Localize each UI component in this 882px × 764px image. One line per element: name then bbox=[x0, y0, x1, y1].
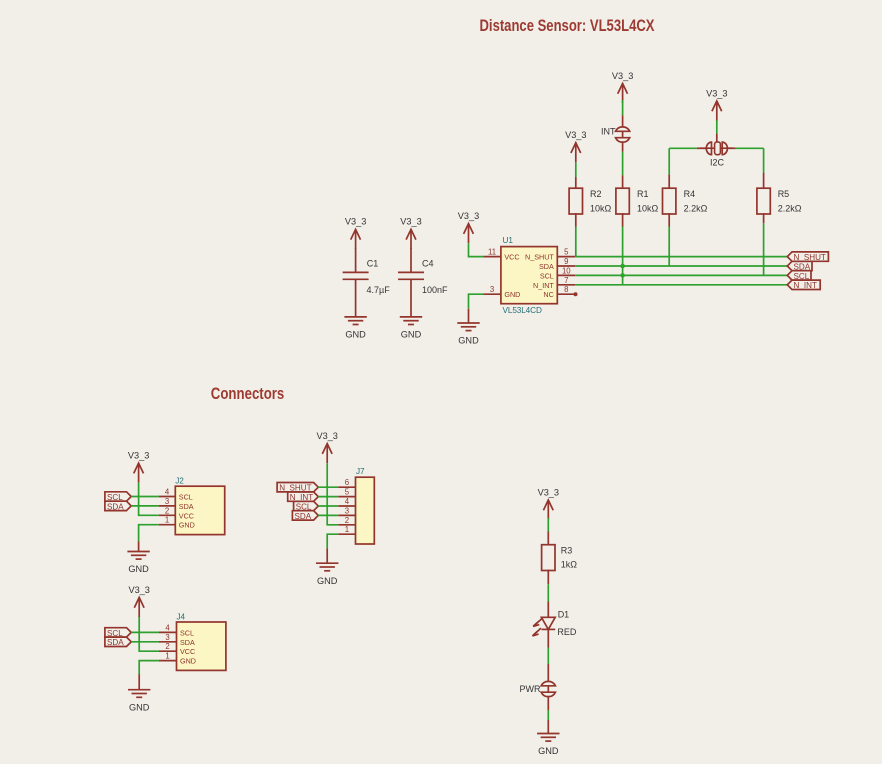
svg-text:GND: GND bbox=[538, 746, 559, 756]
J4 pin 1 GND bbox=[159, 652, 196, 666]
junction SCL bbox=[620, 273, 625, 278]
svg-text:3: 3 bbox=[165, 497, 169, 506]
power V3_3 above J7 bbox=[316, 431, 337, 463]
svg-text:10kΩ: 10kΩ bbox=[637, 203, 659, 213]
svg-text:C1: C1 bbox=[367, 258, 379, 268]
J4 pin 3 SDA bbox=[159, 633, 195, 647]
wire J2 pin 1 to ground bbox=[139, 525, 159, 542]
svg-text:R4: R4 bbox=[684, 189, 696, 199]
svg-text:N_INT: N_INT bbox=[533, 281, 554, 290]
svg-text:V3_3: V3_3 bbox=[128, 451, 149, 461]
wire down to R5 bbox=[763, 148, 765, 188]
svg-text:D1: D1 bbox=[558, 609, 570, 619]
svg-text:V3_3: V3_3 bbox=[565, 130, 586, 140]
J7 pin 1 bbox=[338, 525, 355, 534]
svg-text:V3_3: V3_3 bbox=[400, 217, 421, 227]
svg-text:N_INT: N_INT bbox=[794, 281, 817, 290]
wire INT to R1 bbox=[622, 143, 624, 189]
resistor R2 bbox=[569, 188, 611, 214]
svg-text:J7: J7 bbox=[356, 467, 365, 476]
connector J2 body bbox=[175, 477, 224, 535]
LED D1 bbox=[533, 609, 577, 637]
J2 pin 3 SDA bbox=[159, 497, 194, 511]
ground below PWR bbox=[537, 734, 559, 757]
wire V3_3 to jumper bbox=[716, 120, 718, 142]
resistor R4 bbox=[663, 188, 708, 214]
global label N_SHUT right bbox=[787, 252, 828, 262]
svg-text:R5: R5 bbox=[778, 189, 790, 199]
svg-text:100nF: 100nF bbox=[422, 285, 448, 295]
ground below J2 bbox=[127, 541, 149, 574]
power V3_3 above jumper bbox=[706, 88, 727, 120]
wire SCL to J2 pin 4 bbox=[131, 496, 159, 498]
svg-text:VCC: VCC bbox=[179, 511, 194, 520]
wire V3_3 to R2 bbox=[575, 162, 577, 188]
svg-text:5: 5 bbox=[345, 488, 350, 497]
svg-text:GND: GND bbox=[504, 290, 520, 299]
wire V3_3 to J7 pin 2 bbox=[327, 463, 338, 525]
global label SCL at J2 bbox=[105, 492, 131, 502]
resistor R3 bbox=[542, 545, 578, 571]
svg-text:2: 2 bbox=[345, 516, 349, 525]
resistor R5 bbox=[757, 188, 802, 214]
svg-text:C4: C4 bbox=[422, 258, 434, 268]
svg-text:9: 9 bbox=[564, 257, 568, 266]
wire R2 to N_SHUT bbox=[575, 213, 577, 257]
svg-text:10kΩ: 10kΩ bbox=[590, 203, 612, 213]
svg-text:1: 1 bbox=[165, 516, 169, 525]
wire PWR to ground bbox=[547, 697, 549, 734]
svg-text:2: 2 bbox=[165, 506, 169, 515]
power V3_3 above J4 bbox=[128, 585, 149, 617]
ground below J4 bbox=[128, 674, 150, 712]
wire D1 to PWR flag bbox=[547, 629, 549, 681]
svg-text:5: 5 bbox=[564, 248, 569, 257]
wire net N_INT row bbox=[575, 284, 787, 286]
svg-text:J4: J4 bbox=[177, 613, 186, 622]
wire net N_SHUT row bbox=[575, 256, 787, 258]
pin 9 SDA bbox=[539, 257, 575, 271]
svg-text:SCL: SCL bbox=[179, 493, 193, 502]
svg-text:1: 1 bbox=[345, 525, 349, 534]
J7 pin 3 bbox=[338, 506, 355, 515]
svg-text:R2: R2 bbox=[590, 189, 602, 199]
wire R1 to N_INT bbox=[622, 213, 624, 285]
svg-text:11: 11 bbox=[488, 248, 496, 257]
svg-text:GND: GND bbox=[317, 576, 338, 586]
svg-text:NC: NC bbox=[543, 290, 553, 299]
J7 pin 4 bbox=[338, 497, 355, 506]
ground below U1 bbox=[457, 309, 479, 346]
global label SCL at J4 bbox=[105, 628, 131, 638]
op-amp U1 VL53L4CD body bbox=[501, 236, 557, 315]
svg-text:6: 6 bbox=[345, 478, 349, 487]
jumper I2C bbox=[700, 142, 733, 167]
svg-text:2.2kΩ: 2.2kΩ bbox=[778, 203, 802, 213]
ground below J7 bbox=[316, 548, 338, 586]
svg-text:V3_3: V3_3 bbox=[538, 487, 559, 497]
wire V3_3 to J4 pin 2 bbox=[139, 617, 159, 651]
svg-text:GND: GND bbox=[401, 330, 422, 340]
wire N_SHUT to J7 pin 6 bbox=[318, 486, 338, 488]
global label N_INT at J7 bbox=[288, 492, 319, 502]
svg-text:SCL: SCL bbox=[540, 271, 554, 280]
wire net SDA row bbox=[575, 265, 787, 267]
svg-text:VCC: VCC bbox=[180, 647, 195, 656]
wire R4 to SDA bbox=[668, 213, 670, 266]
svg-text:4: 4 bbox=[165, 623, 170, 632]
junction SDA bbox=[620, 264, 625, 269]
wire J4 pin 1 to ground bbox=[139, 661, 159, 675]
J7 pin 6 bbox=[338, 478, 355, 487]
wire N_INT to J7 pin 5 bbox=[318, 496, 338, 498]
power V3_3 above R2 bbox=[565, 130, 586, 162]
svg-text:4: 4 bbox=[345, 497, 350, 506]
svg-text:V3_3: V3_3 bbox=[706, 88, 727, 98]
flag INT bbox=[601, 127, 630, 142]
wire J7 pin 1 to ground bbox=[327, 534, 338, 548]
wire jumper left to R4 bbox=[669, 147, 707, 149]
wire SDA to J4 pin 3 bbox=[131, 641, 159, 643]
global label SDA right bbox=[787, 261, 812, 271]
svg-text:SDA: SDA bbox=[107, 638, 124, 647]
svg-text:U1: U1 bbox=[503, 236, 514, 245]
power V3_3 above C4 bbox=[400, 217, 421, 249]
global label N_INT right bbox=[787, 280, 820, 290]
wire V3_3 to C1 bbox=[355, 248, 357, 272]
svg-text:SDA: SDA bbox=[295, 512, 312, 521]
svg-text:GND: GND bbox=[179, 521, 195, 530]
svg-text:GND: GND bbox=[129, 702, 150, 712]
svg-text:GND: GND bbox=[458, 336, 479, 346]
svg-text:4.7µF: 4.7µF bbox=[367, 285, 391, 295]
power V3_3 for U1 VCC bbox=[458, 211, 479, 243]
svg-text:SDA: SDA bbox=[107, 502, 124, 511]
global label SCL at J7 bbox=[294, 501, 319, 511]
J7 pin 5 bbox=[338, 488, 355, 497]
svg-text:I2C: I2C bbox=[710, 157, 725, 167]
svg-text:RED: RED bbox=[557, 627, 577, 637]
wire jumper right to R5 bbox=[726, 147, 763, 149]
svg-text:2.2kΩ: 2.2kΩ bbox=[684, 203, 708, 213]
wire net SCL row bbox=[575, 274, 787, 276]
wire U1 pin 3 to ground bbox=[469, 294, 484, 309]
wire C4 to ground bbox=[410, 279, 412, 317]
wire down to R4 bbox=[668, 148, 670, 188]
svg-text:Distance Sensor: VL53L4CX: Distance Sensor: VL53L4CX bbox=[480, 16, 655, 35]
pin 3 GND bbox=[483, 285, 520, 299]
svg-text:V3_3: V3_3 bbox=[316, 431, 337, 441]
wire V3_3 to U1 pin 11 bbox=[469, 243, 484, 256]
svg-text:GND: GND bbox=[180, 657, 196, 666]
svg-text:7: 7 bbox=[564, 276, 568, 285]
pin 10 SCL bbox=[540, 266, 575, 280]
global label N_SHUT at J7 bbox=[277, 483, 318, 493]
J4 pin 2 VCC bbox=[159, 642, 195, 656]
global label SDA at J7 bbox=[292, 511, 318, 521]
svg-text:SCL: SCL bbox=[180, 628, 194, 637]
svg-text:V3_3: V3_3 bbox=[612, 71, 633, 81]
power V3_3 above J2 bbox=[128, 451, 149, 483]
svg-text:1kΩ: 1kΩ bbox=[561, 560, 578, 570]
J2 pin 1 GND bbox=[159, 516, 195, 530]
svg-text:SDA: SDA bbox=[539, 262, 554, 271]
wire C1 to ground bbox=[355, 279, 357, 317]
wire R5 to SCL bbox=[763, 213, 765, 275]
svg-text:GND: GND bbox=[128, 564, 149, 574]
connector J4 body bbox=[177, 613, 226, 671]
svg-text:INT: INT bbox=[601, 127, 616, 137]
wire V3_3 to J2 pin 2 bbox=[139, 483, 159, 516]
wire R3 to D1 bbox=[547, 570, 549, 618]
resistor R1 bbox=[616, 188, 659, 214]
ground below C1 bbox=[344, 317, 366, 340]
svg-text:SDA: SDA bbox=[180, 638, 195, 647]
svg-text:PWR: PWR bbox=[520, 684, 541, 694]
power V3_3 above C1 bbox=[345, 217, 366, 249]
wire SCL to J7 pin 4 bbox=[318, 505, 338, 507]
pin 11 VCC bbox=[483, 248, 519, 262]
global label SDA at J4 bbox=[105, 637, 131, 647]
wire V3_3 to INT flag bbox=[622, 100, 624, 127]
connector J7 body bbox=[356, 467, 375, 544]
svg-text:SDA: SDA bbox=[179, 502, 194, 511]
svg-text:8: 8 bbox=[564, 285, 568, 294]
pin 7 N_INT bbox=[533, 276, 575, 290]
wire SDA to J2 pin 3 bbox=[131, 505, 159, 507]
flag PWR bbox=[520, 681, 556, 696]
J2 pin 4 SCL bbox=[159, 488, 193, 502]
ground below C4 bbox=[400, 317, 422, 340]
J2 pin 2 VCC bbox=[159, 506, 194, 520]
svg-text:V3_3: V3_3 bbox=[128, 585, 149, 595]
svg-text:3: 3 bbox=[165, 633, 169, 642]
svg-text:3: 3 bbox=[490, 285, 494, 294]
pin 5 N_SHUT bbox=[525, 248, 575, 262]
wire V3_3 to C4 bbox=[410, 248, 412, 272]
svg-text:Connectors: Connectors bbox=[211, 384, 284, 403]
capacitor C4 bbox=[398, 258, 448, 295]
power V3_3 above INT bbox=[612, 71, 633, 103]
svg-text:10: 10 bbox=[562, 266, 571, 275]
svg-text:J2: J2 bbox=[175, 477, 184, 486]
svg-text:V3_3: V3_3 bbox=[345, 217, 366, 227]
capacitor C1 bbox=[343, 258, 391, 295]
svg-text:V3_3: V3_3 bbox=[458, 211, 479, 221]
svg-text:3: 3 bbox=[345, 506, 349, 515]
wire V3_3 to R3 bbox=[547, 518, 549, 545]
svg-text:N_SHUT: N_SHUT bbox=[525, 253, 554, 262]
pin 8 NC bbox=[543, 285, 577, 299]
J7 pin 2 bbox=[338, 516, 355, 525]
svg-text:R3: R3 bbox=[561, 546, 573, 556]
svg-text:GND: GND bbox=[345, 330, 366, 340]
svg-text:1: 1 bbox=[165, 652, 169, 661]
global label SDA at J2 bbox=[105, 501, 131, 511]
global label SCL right bbox=[787, 271, 811, 281]
wire SDA to J7 pin 3 bbox=[318, 514, 338, 516]
svg-text:2: 2 bbox=[165, 642, 169, 651]
svg-text:VL53L4CD: VL53L4CD bbox=[503, 306, 542, 315]
svg-text:R1: R1 bbox=[637, 189, 649, 199]
J4 pin 4 SCL bbox=[159, 623, 194, 637]
svg-text:4: 4 bbox=[165, 488, 170, 497]
wire SCL to J4 pin 4 bbox=[131, 631, 159, 633]
power V3_3 above R3 bbox=[538, 487, 559, 519]
svg-text:VCC: VCC bbox=[504, 253, 519, 262]
